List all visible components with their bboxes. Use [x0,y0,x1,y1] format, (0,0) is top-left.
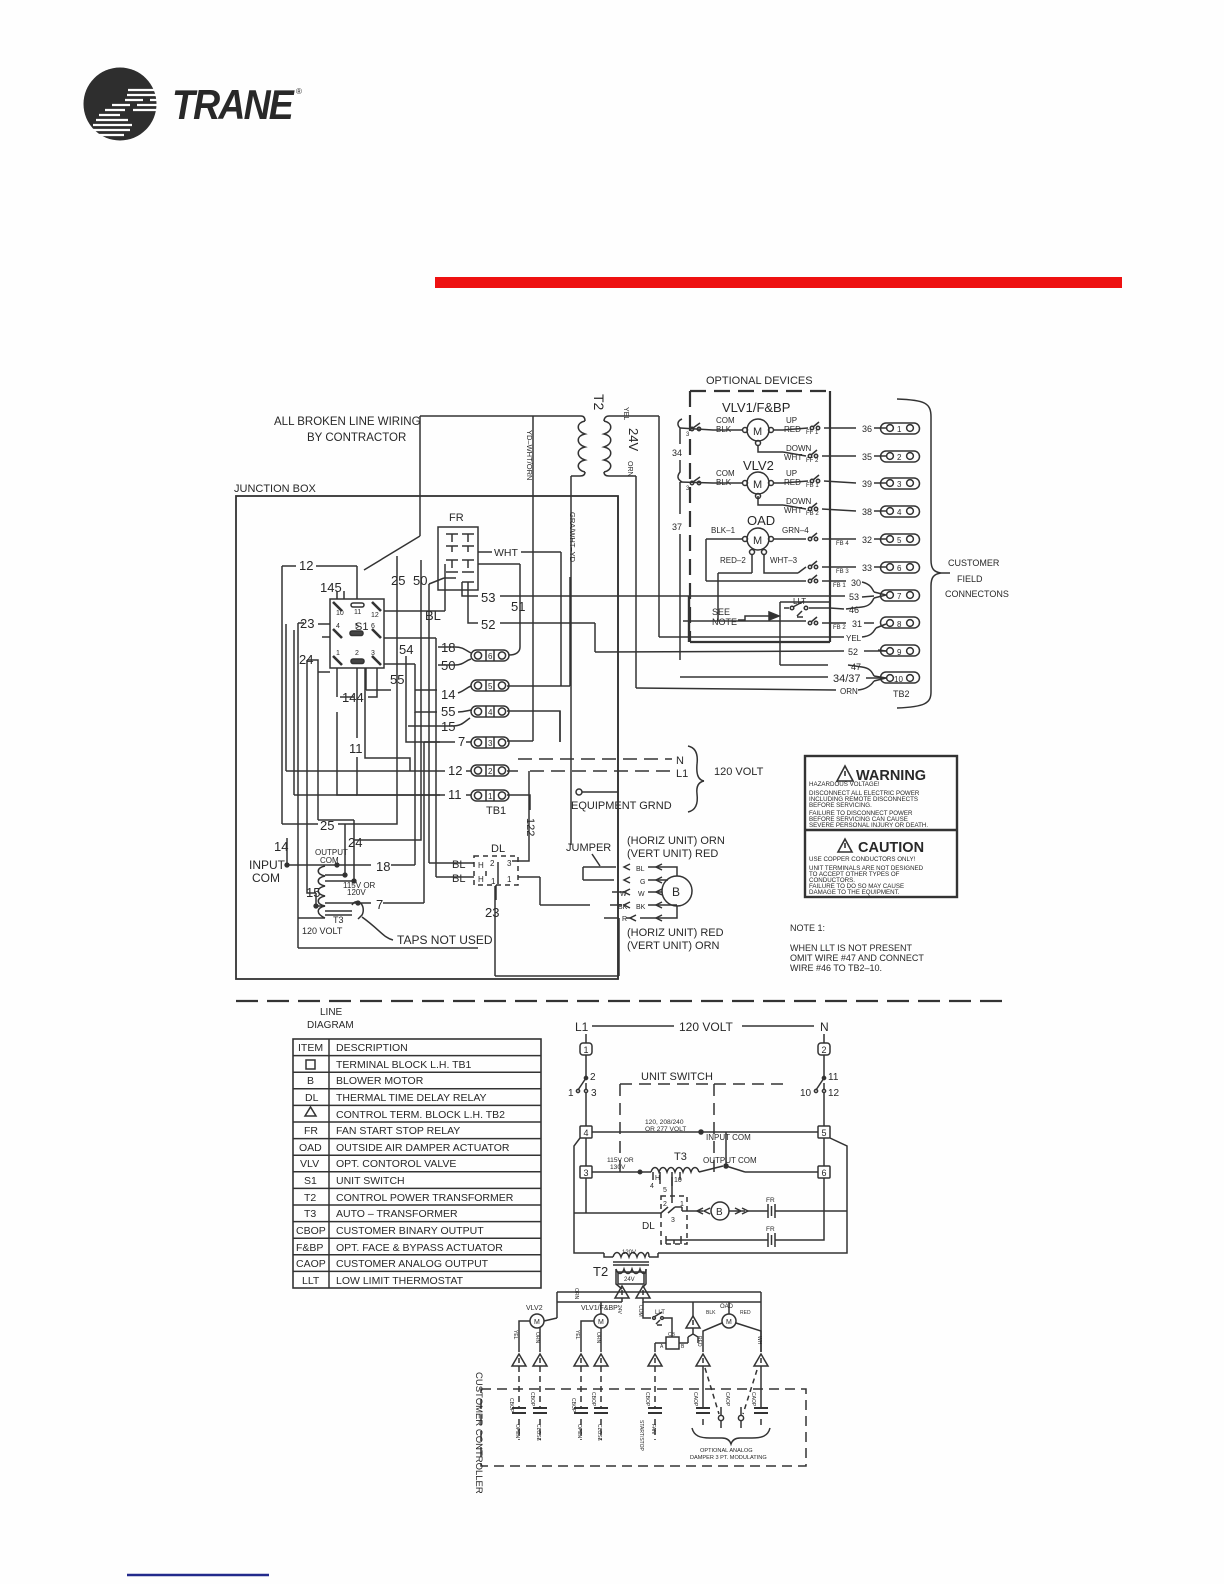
wire 11 vertical [349,712,440,795]
TB2 lug 9 [878,645,920,657]
svg-text:34: 34 [672,448,682,458]
svg-text:4: 4 [488,708,493,717]
svg-text:ORN: ORN [595,1332,601,1344]
svg-text:10: 10 [800,1088,812,1099]
svg-text:FB 4: FB 4 [836,541,849,547]
svg-text:ORN: ORN [626,461,633,477]
svg-text:OAD: OAD [720,1304,734,1310]
svg-text:L1: L1 [676,768,688,780]
svg-text:H: H [478,861,484,870]
svg-text:OPT. CONTOROL VALVE: OPT. CONTOROL VALVE [336,1158,456,1170]
svg-text:VLV1/F&BP: VLV1/F&BP [581,1305,618,1312]
svg-text:6: 6 [488,652,493,661]
terminal 3 [580,1166,592,1178]
wire YEL row [659,628,876,643]
TB2 lug 4 [874,506,920,517]
svg-text:52: 52 [481,617,495,632]
wire S1-23 [318,624,330,637]
svg-text:L1: L1 [575,1020,589,1034]
wire S1-24 [313,660,330,700]
svg-text:CUSTOMER CONTROLLER: CUSTOMER CONTROLLER [473,1372,484,1494]
legend table [293,1039,541,1288]
optional devices enclosure [689,375,830,642]
svg-text:CLOSE: CLOSE [596,1424,602,1442]
svg-text:TERMINAL BLOCK L.H. TB1: TERMINAL BLOCK L.H. TB1 [336,1059,472,1071]
svg-text:UNIT SWITCH: UNIT SWITCH [641,1071,713,1083]
svg-text:6: 6 [822,1168,827,1178]
svg-text:ORN: ORN [840,687,858,696]
blower motor B [662,867,692,918]
wire N dashed [518,755,684,767]
svg-text:1: 1 [491,877,496,886]
svg-text:LLT: LLT [302,1275,320,1287]
svg-text:4: 4 [650,1183,654,1190]
wire T2 primary top [364,416,585,570]
svg-text:CBOP: CBOP [529,1392,535,1407]
svg-text:FAN START STOP RELAY: FAN START STOP RELAY [336,1125,460,1137]
svg-text:CUSTOMER BINARY OUTPUT: CUSTOMER BINARY OUTPUT [336,1225,484,1237]
svg-text:COM: COM [252,871,280,885]
svg-text:51: 51 [511,599,525,614]
svg-text:3: 3 [686,432,690,438]
customer controller enclosure [473,1372,806,1494]
svg-text:3: 3 [507,859,512,868]
wire 52 long [468,582,886,652]
wire 53 long [462,582,874,605]
svg-text:®: ® [296,87,302,96]
svg-text:CONTROL POWER TRANSFORMER: CONTROL POWER TRANSFORMER [336,1192,514,1204]
svg-text:T3: T3 [674,1151,687,1163]
transformer T2 [578,394,641,477]
svg-text:FB 1: FB 1 [806,483,819,489]
svg-text:5: 5 [663,1187,667,1194]
svg-text:1: 1 [336,650,340,657]
svg-text:VLV2: VLV2 [743,458,774,473]
svg-text:B: B [681,1344,685,1350]
optional analog note [690,1428,770,1461]
terminal 4 [580,1126,592,1138]
svg-text:3: 3 [897,480,902,489]
note 1 text [790,923,924,973]
svg-text:CAUTION: CAUTION [858,840,924,856]
svg-text:M: M [726,1319,732,1326]
svg-text:122: 122 [524,818,536,836]
svg-text:ITEM: ITEM [298,1042,323,1054]
svg-text:DIAGRAM: DIAGRAM [307,1020,354,1031]
unit switch dashed enclosure [620,1084,790,1172]
svg-text:OAD: OAD [299,1142,322,1154]
svg-text:10: 10 [336,610,344,617]
svg-text:2: 2 [488,767,493,776]
svg-text:OPEN: OPEN [576,1424,582,1439]
TB2 lug 10 [874,672,920,684]
svg-text:12: 12 [371,612,379,619]
svg-text:ALL BROKEN LINE WIRING: ALL BROKEN LINE WIRING [274,416,421,428]
svg-text:10: 10 [674,1177,682,1184]
svg-text:COM: COM [716,469,735,478]
outer circuit frame [574,1138,847,1253]
svg-text:DL: DL [642,1221,655,1232]
svg-text:12: 12 [299,558,313,573]
svg-text:NOTE 1:: NOTE 1: [790,923,825,933]
svg-text:53: 53 [481,590,495,605]
svg-text:CAOP: CAOP [692,1392,698,1407]
wire DL-23 [485,885,499,920]
svg-text:FB 3: FB 3 [836,569,849,575]
svg-text:RED: RED [740,1310,751,1316]
terminal lug 1 row 11 [440,787,530,810]
TB2 lug 5 [874,534,920,545]
svg-text:BLK: BLK [706,1310,716,1316]
customer field connectons brace [897,399,1009,708]
svg-text:6: 6 [371,623,375,630]
svg-text:14: 14 [441,687,455,702]
wire DL right to motor [495,877,619,976]
wire 37 [672,482,682,660]
svg-text:H: H [478,875,484,884]
unit switch left pole [568,1055,597,1126]
Trane logo wordmark TRANE [172,81,302,128]
svg-text:M: M [753,479,762,491]
relay contact FR upper [763,1197,847,1218]
wire BL vertical [384,578,466,877]
svg-text:31: 31 [852,619,862,629]
wire 46 row [830,598,874,615]
svg-text:RED: RED [696,1336,702,1347]
terminal triangle LLT out [686,1302,700,1343]
svg-text:FB 2: FB 2 [833,625,846,631]
TB2 lug 6 [874,562,920,573]
svg-text:T2: T2 [304,1192,316,1204]
svg-text:3: 3 [371,650,375,657]
customer terminal triangles row [512,1354,768,1366]
binary output capacitors [512,1366,768,1440]
TB2 lug 8 [876,617,920,629]
red header rule [435,277,1122,288]
svg-text:3: 3 [591,1088,597,1099]
svg-text:OPTIONAL DEVICES: OPTIONAL DEVICES [706,375,813,387]
svg-text:1: 1 [488,792,493,801]
svg-text:BLOWER MOTOR: BLOWER MOTOR [336,1075,424,1087]
wire 30 row [706,575,874,592]
svg-text:1: 1 [507,875,512,884]
svg-text:DESCRIPTION: DESCRIPTION [336,1042,408,1054]
wire right risers [560,496,618,979]
svg-text:(VERT UNIT) RED: (VERT UNIT) RED [627,848,718,860]
svg-text:55: 55 [441,704,455,719]
svg-text:33: 33 [862,563,872,573]
line diagram 120 volt header [575,1020,829,1034]
svg-text:DOWN: DOWN [786,444,812,453]
wire 122 vertical [512,771,536,861]
svg-text:5: 5 [897,536,902,545]
svg-text:120 VOLT: 120 VOLT [714,766,764,778]
terminal lug 6 row 18/50 [438,640,509,673]
svg-text:25: 25 [391,573,405,588]
svg-text:CBOP: CBOP [570,1398,576,1413]
see note label [712,607,779,627]
S1 terminal labels [299,558,441,705]
svg-text:30: 30 [851,578,861,588]
terminal 2 [818,1034,830,1055]
svg-text:120, 208/240: 120, 208/240 [645,1119,684,1126]
svg-text:(HORIZ UNIT) ORN: (HORIZ UNIT) ORN [627,835,725,847]
svg-text:WHT: WHT [494,547,518,559]
svg-text:WHT–3: WHT–3 [770,556,798,565]
svg-text:7: 7 [376,897,383,912]
svg-text:38: 38 [862,507,872,517]
svg-text:9: 9 [897,648,902,657]
svg-text:UP: UP [786,416,797,425]
autotransformer T3 line [592,1132,818,1194]
relay contact FR lower [674,1211,824,1247]
svg-text:VLV: VLV [300,1158,319,1170]
section separator dashed [236,1000,1010,1002]
jumper label [566,842,611,866]
svg-text:BK: BK [636,904,646,911]
svg-text:120 VOLT: 120 VOLT [679,1020,733,1034]
wire S1 right taps [384,564,445,690]
svg-text:FR: FR [449,512,464,524]
svg-text:M: M [534,1319,540,1326]
damper actuator OAD [706,513,856,621]
svg-text:36: 36 [862,424,872,434]
valve motor VLV1/F&BP [680,400,856,464]
thermostat LLT [780,597,830,643]
svg-text:11: 11 [448,787,462,802]
svg-text:5: 5 [488,682,493,691]
wire 50 drop [354,560,421,840]
terminal 1 [580,1034,592,1055]
svg-text:OAD: OAD [747,513,775,528]
terminal lug 4 row 55/15 [408,690,560,742]
TB2 numbers [849,424,872,602]
svg-text:G: G [640,879,645,886]
junction box enclosure [234,483,618,979]
svg-text:OUTPUT COM: OUTPUT COM [703,1156,757,1165]
svg-text:T2: T2 [591,394,607,411]
svg-text:8: 8 [897,620,902,629]
svg-text:FAN: FAN [650,1424,656,1434]
wire WHT from FR [478,547,570,686]
svg-text:CBOP: CBOP [590,1392,596,1407]
svg-text:GRN–4: GRN–4 [782,526,809,535]
svg-text:OPTIONAL ANALOG: OPTIONAL ANALOG [700,1448,753,1454]
blower motor harness [610,864,662,923]
svg-text:THERMAL TIME DELAY RELAY: THERMAL TIME DELAY RELAY [336,1092,487,1104]
svg-text:3: 3 [584,1168,589,1178]
svg-text:35: 35 [862,452,872,462]
svg-text:EQUIPMENT GRND: EQUIPMENT GRND [571,800,672,812]
equipment ground [571,789,672,812]
svg-text:TB2: TB2 [893,689,910,699]
TB2 lug 7 [874,590,920,601]
svg-text:F&BP: F&BP [296,1242,323,1254]
svg-text:YD–WHT/ORN: YD–WHT/ORN [525,430,534,480]
wire T2 primary bottom [571,472,585,845]
svg-text:CONNECTONS: CONNECTONS [945,589,1009,599]
wire S1-144 [337,668,377,712]
note: broken line wiring [274,416,421,444]
svg-text:SEE: SEE [712,607,730,617]
svg-text:N: N [820,1020,829,1034]
svg-text:JUMPER: JUMPER [566,842,611,854]
svg-text:GRA/WHT–YD: GRA/WHT–YD [568,512,577,563]
svg-text:FR: FR [766,1197,775,1204]
svg-text:ORN: ORN [534,1332,540,1344]
svg-text:HAZARDOUS VOLTAGE!: HAZARDOUS VOLTAGE! [809,781,880,788]
svg-text:RED–2: RED–2 [720,556,746,565]
relay DL dashed box [452,843,518,886]
caution box [809,839,924,896]
blower motor B line [687,1202,763,1220]
svg-text:AUTO – TRANSFORMER: AUTO – TRANSFORMER [336,1208,458,1220]
svg-text:50: 50 [413,573,427,588]
svg-text:CBOP: CBOP [296,1225,326,1237]
valve motor VLV2 bottom [512,1288,579,1352]
24v bus wire [557,1292,761,1352]
footer blue rule [127,1574,269,1576]
wire S1-12 [282,566,357,824]
horiz/vert unit labels top [627,835,725,860]
svg-text:CONTROL TERM. BLOCK L.H. T: CONTROL TERM. BLOCK L.H. TB2 [336,1109,505,1121]
svg-text:WHEN LLT IS NOT PRESENT: WHEN LLT IS NOT PRESENT [790,943,913,953]
svg-text:39: 39 [862,479,872,489]
svg-text:OUTSIDE AIR DAMPER ACTUATOR: OUTSIDE AIR DAMPER ACTUATOR [336,1142,510,1154]
svg-text:7: 7 [897,592,902,601]
wire 31 row [683,617,874,631]
svg-text:FF 1: FF 1 [806,430,819,436]
voltage note text [645,1119,686,1133]
svg-text:M: M [753,535,762,547]
wire 34/37 row [680,673,886,685]
svg-text:37: 37 [672,522,682,532]
unit switch S1 [330,599,384,668]
valve motor VLV2 [680,458,856,517]
svg-text:120V: 120V [347,888,366,897]
svg-text:OPEN: OPEN [514,1424,520,1439]
svg-text:145: 145 [320,580,342,595]
svg-text:6: 6 [897,564,902,573]
wire 34 [672,419,682,482]
svg-text:DL: DL [491,843,505,855]
left riser wires S1 to T3 [298,623,316,918]
brace 120 volt [688,746,764,812]
thermostat LLT bottom [643,1302,672,1330]
svg-text:S1: S1 [304,1175,317,1187]
svg-text:LOW LIMIT THERMOSTAT: LOW LIMIT THERMOSTAT [336,1275,464,1287]
svg-text:CAOP: CAOP [296,1258,326,1270]
svg-text:BL: BL [452,873,465,885]
svg-text:T3: T3 [304,1208,316,1220]
svg-text:YEL: YEL [574,1330,580,1340]
svg-text:130V: 130V [610,1164,626,1171]
terminal block triangle B [636,1286,650,1317]
svg-text:23: 23 [485,905,499,920]
svg-text:VLV2: VLV2 [526,1305,543,1312]
svg-text:TB1: TB1 [486,805,506,817]
svg-text:DL: DL [305,1092,319,1104]
TB2 lug 1 [874,423,920,434]
svg-text:B: B [716,1207,723,1218]
wire ORN row [636,681,910,699]
svg-text:2: 2 [897,453,902,462]
relay FR [438,512,478,590]
svg-text:UNIT SWITCH: UNIT SWITCH [336,1175,405,1187]
svg-text:BLK–1: BLK–1 [711,526,736,535]
svg-text:COM: COM [637,1305,643,1317]
unit switch right pole [800,1055,840,1126]
terminal 5 [818,1126,830,1138]
input com wire [592,1130,818,1142]
svg-text:TAPS NOT USED: TAPS NOT USED [397,933,493,947]
terminal lug 2 row 12 [410,763,518,778]
svg-text:CUSTOMER ANALOG OUTPUT: CUSTOMER ANALOG OUTPUT [336,1258,489,1270]
svg-text:4: 4 [584,1128,589,1138]
svg-text:BEFORE SERVICING.: BEFORE SERVICING. [809,802,872,809]
svg-text:YEL: YEL [622,407,629,420]
svg-text:LINE: LINE [320,1007,343,1018]
svg-text:FF 2: FF 2 [806,458,819,464]
svg-text:OPT. FACE & BYPASS ACTUATO: OPT. FACE & BYPASS ACTUATOR [336,1242,503,1254]
wire 25 drop [345,556,397,824]
wire bundle down from S1 [318,668,410,820]
svg-text:START/STOP: START/STOP [638,1420,644,1452]
autotransformer T3 winding [285,668,478,948]
svg-text:CUSTOMER: CUSTOMER [948,558,1000,568]
svg-text:54: 54 [399,642,413,657]
svg-text:18: 18 [376,859,390,874]
svg-text:10: 10 [894,675,903,684]
jumper bracket [583,867,616,880]
svg-text:2: 2 [822,1045,827,1055]
svg-text:3: 3 [671,1217,675,1224]
svg-text:11: 11 [349,741,363,756]
TB2 lug 2 [874,451,920,462]
svg-text:ORN: ORN [573,1288,579,1300]
svg-text:OMIT WIRE #47 AND CONNECT: OMIT WIRE #47 AND CONNECT [790,953,924,963]
svg-text:R: R [622,916,627,923]
wire S1-145 [337,591,344,599]
svg-text:A: A [660,1344,664,1350]
svg-text:CBOP: CBOP [508,1398,514,1413]
line diagram heading [307,1007,354,1031]
svg-text:JUNCTION BOX: JUNCTION BOX [234,483,317,495]
capacitor labels [508,1392,756,1452]
svg-text:12: 12 [828,1088,840,1099]
svg-text:T3: T3 [333,915,344,925]
svg-text:47: 47 [851,662,861,672]
svg-text:NOTE: NOTE [712,617,737,627]
breaker CB [655,1330,688,1352]
svg-text:USE COPPER CONDUCTORS ONLY!: USE COPPER CONDUCTORS ONLY! [809,856,916,863]
svg-text:DAMPER 3 PT. MODULATING: DAMPER 3 PT. MODULATING [690,1455,767,1461]
svg-text:2: 2 [590,1072,596,1083]
svg-text:32: 32 [862,535,872,545]
svg-text:FR: FR [766,1226,775,1233]
warning box [805,756,957,897]
svg-text:YEL: YEL [846,634,862,643]
svg-text:FIELD: FIELD [957,574,983,584]
svg-text:CLOSE: CLOSE [535,1424,541,1442]
terminal lug 5 row 14 [415,680,570,702]
svg-text:INPUT COM: INPUT COM [706,1133,751,1142]
svg-text:INPUT: INPUT [249,858,286,872]
svg-text:12: 12 [448,763,462,778]
svg-text:YEL: YEL [512,1330,518,1340]
svg-text:TRANE: TRANE [172,81,296,128]
svg-text:1: 1 [584,1045,589,1055]
